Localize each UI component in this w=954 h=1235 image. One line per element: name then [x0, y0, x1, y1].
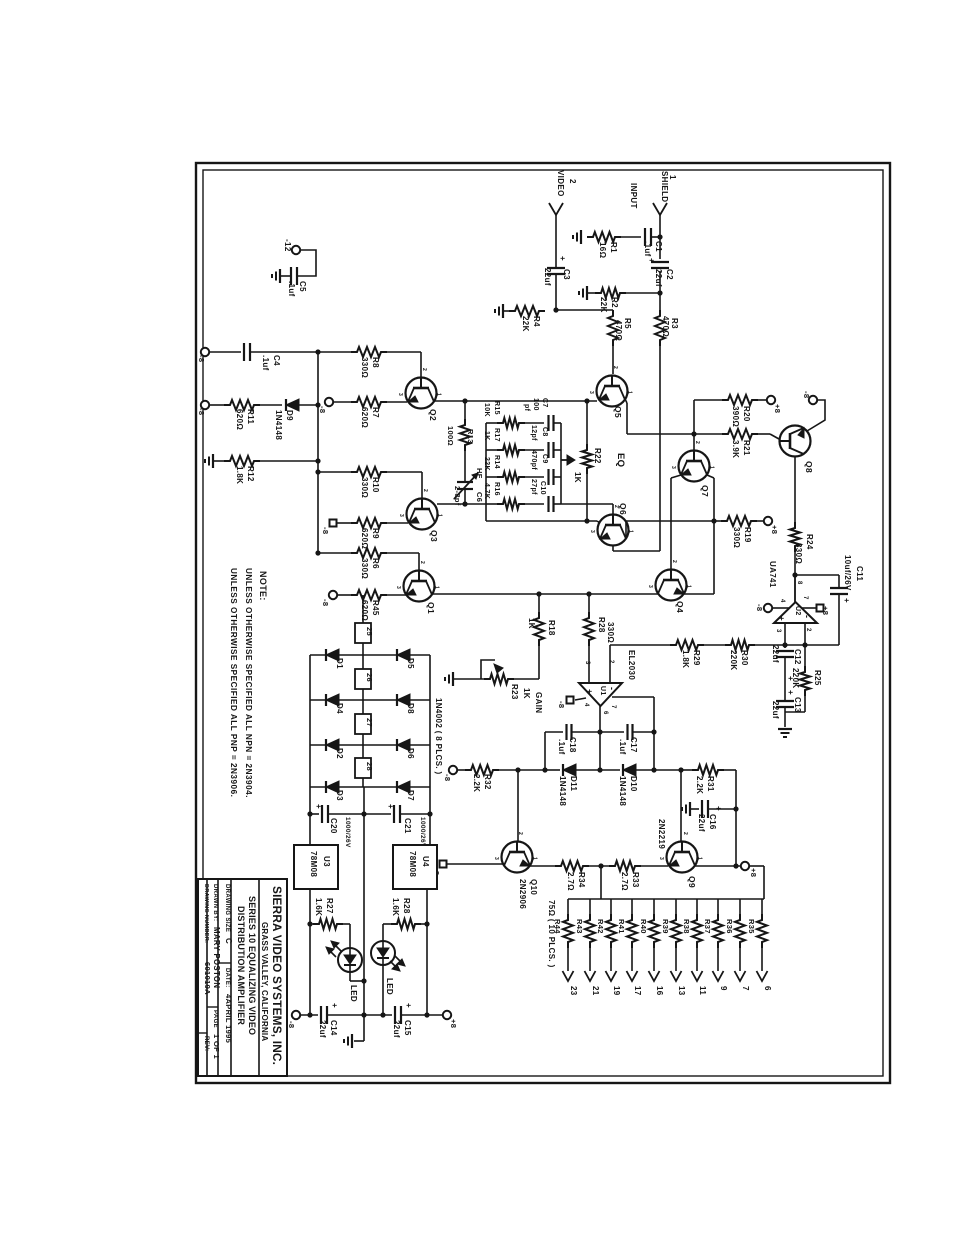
svg-text:6: 6 — [602, 711, 608, 715]
svg-text:1K: 1K — [522, 688, 531, 699]
svg-text:78M08: 78M08 — [408, 851, 417, 877]
svg-text:4.7K: 4.7K — [483, 483, 490, 499]
ground at R1 — [580, 230, 582, 244]
svg-text:SHIELD: SHIELD — [660, 171, 669, 202]
LED1 — [349, 924, 351, 948]
terminal -8 row R11 — [201, 401, 209, 409]
svg-text:-8: -8 — [197, 355, 206, 362]
svg-text:2: 2 — [694, 441, 700, 444]
wire output bus — [568, 898, 764, 900]
svg-text:R36: R36 — [725, 919, 734, 934]
svg-text:2: 2 — [422, 489, 428, 492]
op-amp U1 EL2030 — [579, 683, 622, 706]
svg-text:R23: R23 — [510, 684, 519, 700]
terminal +8 at R19 — [757, 520, 764, 522]
wire Q6 emitter bottom — [612, 545, 614, 551]
terminal +8 bottom — [443, 1011, 451, 1019]
svg-text:21: 21 — [591, 986, 600, 996]
ground at R2 — [587, 292, 595, 294]
terminal -8 row R45 — [329, 591, 337, 599]
svg-text:R35: R35 — [747, 919, 756, 934]
capacitor C17 — [600, 731, 624, 733]
output arrow pin 16 — [649, 971, 660, 981]
svg-text:+8: +8 — [449, 1019, 458, 1028]
transistor Q9 2N2219 — [680, 770, 682, 841]
svg-text:620Ω: 620Ω — [360, 528, 369, 549]
resistor R42 75 ohm output — [610, 899, 612, 916]
svg-text:-12: -12 — [283, 239, 292, 252]
svg-text:D7: D7 — [406, 790, 415, 801]
svg-text:C: C — [224, 938, 233, 944]
op-amp U2 UA741 — [774, 602, 817, 623]
capacitor C11 10uf/26V — [795, 574, 839, 576]
wire Q10 emitter row — [530, 865, 557, 867]
svg-text:470Ω: 470Ω — [661, 316, 670, 337]
transistor Q4 — [656, 570, 687, 601]
bridge row C — [310, 744, 430, 746]
svg-text:2: 2 — [682, 832, 688, 835]
wire R19 row — [714, 520, 724, 522]
svg-text:4: 4 — [583, 703, 589, 707]
connector J1 pin2 VIDEO input — [549, 203, 563, 215]
svg-text:Q7: Q7 — [700, 485, 710, 497]
diode D10 1N4148 — [600, 769, 620, 771]
wire Q1 emitter row — [432, 593, 658, 595]
svg-text:2: 2 — [805, 628, 811, 632]
terminal -8 at U2 pin4 — [773, 607, 789, 609]
svg-text:DATE:: DATE: — [224, 968, 230, 988]
capacitor C20 1000/26V — [310, 813, 319, 815]
svg-text:7: 7 — [610, 705, 616, 709]
ground at C5 — [280, 275, 291, 277]
svg-text:REV:: REV: — [203, 1036, 209, 1051]
wire R33 to Q9 — [639, 865, 668, 867]
svg-text:19: 19 — [612, 986, 621, 996]
svg-text:12pf: 12pf — [530, 425, 537, 441]
svg-text:R22: R22 — [593, 448, 602, 464]
svg-text:R42: R42 — [596, 919, 605, 934]
output arrow pin 13 — [671, 971, 682, 981]
svg-text:75Ω ( 10 PLCS. ): 75Ω ( 10 PLCS. ) — [547, 900, 556, 968]
svg-text:C12: C12 — [793, 649, 802, 665]
output arrow pin 6 — [757, 971, 768, 981]
svg-text:D3: D3 — [335, 790, 344, 801]
svg-text:3: 3 — [658, 857, 664, 860]
output arrow pin 23 — [563, 971, 574, 981]
svg-text:R19: R19 — [743, 527, 752, 543]
svg-text:pf: pf — [523, 404, 530, 412]
svg-text:8: 8 — [796, 581, 802, 585]
svg-text:Q5: Q5 — [613, 406, 623, 418]
wire R21 row — [627, 433, 722, 435]
wire R24 column from Q8 — [794, 456, 796, 524]
svg-text:-: - — [607, 687, 617, 690]
resistor R24 — [790, 522, 800, 552]
resistor R10 — [318, 471, 351, 473]
svg-text:C4: C4 — [272, 355, 281, 366]
svg-text:22uf: 22uf — [318, 1020, 327, 1038]
bridge row B — [310, 699, 430, 701]
potentiometer R22 1K EQ wiper arrow — [561, 459, 569, 461]
svg-text:-8: -8 — [443, 774, 452, 781]
svg-text:C10: C10 — [539, 481, 546, 495]
wire Q6 collector top — [612, 504, 614, 515]
resistor R1 — [587, 232, 621, 242]
wire R9 to Q3 base — [387, 522, 408, 524]
svg-text:220K: 220K — [729, 650, 738, 671]
svg-text:NOTE:: NOTE: — [258, 571, 268, 601]
wire R8 to Q2 collector — [387, 351, 421, 353]
EQ branch R14 C9 470pf — [486, 476, 500, 478]
resistor R38 75 ohm output — [696, 899, 698, 916]
svg-text:MARY POSTON: MARY POSTON — [212, 927, 221, 988]
svg-text:22K: 22K — [599, 297, 608, 313]
svg-text:3: 3 — [395, 586, 401, 589]
resistor R29 — [670, 640, 704, 650]
svg-text:-8: -8 — [197, 408, 206, 415]
wire R7 to Q2 base — [387, 401, 407, 403]
wire U1 output pin6 — [599, 706, 601, 770]
svg-text:R12: R12 — [246, 466, 255, 482]
svg-text:-8: -8 — [321, 527, 330, 534]
diode D1 — [326, 649, 339, 661]
svg-text:Q4: Q4 — [675, 601, 685, 613]
output arrow pin 21 — [585, 971, 596, 981]
svg-text:7: 7 — [741, 986, 750, 991]
svg-text:27: 27 — [365, 718, 374, 727]
svg-text:U4: U4 — [421, 856, 430, 867]
svg-text:620Ω: 620Ω — [235, 409, 244, 430]
wire U2 pin2 to R25 — [804, 623, 806, 666]
resistor R18 — [538, 594, 540, 612]
svg-text:C21: C21 — [403, 818, 412, 834]
wire Q6 base lead — [597, 521, 600, 523]
svg-text:DRAWING NUMBER:: DRAWING NUMBER: — [203, 884, 209, 943]
wire R29 to R30 — [704, 644, 727, 646]
svg-text:C13: C13 — [793, 697, 802, 713]
svg-text:C3: C3 — [562, 269, 571, 280]
svg-text:+: + — [777, 616, 786, 621]
svg-text:+: + — [714, 806, 723, 811]
capacitor C16 — [690, 808, 699, 810]
regulator U4 78M08 — [393, 845, 437, 889]
svg-text:220K: 220K — [791, 668, 800, 689]
svg-text:11: 11 — [698, 986, 707, 995]
capacitor C18 — [545, 731, 563, 733]
resistor R3 — [655, 310, 665, 346]
terminal -8 row R9 — [330, 520, 337, 527]
capacitor C2 — [651, 261, 669, 263]
svg-text:27pf: 27pf — [530, 479, 537, 495]
transistor Q3 — [407, 499, 438, 530]
resistor R8 — [351, 347, 387, 357]
svg-text:1N4148: 1N4148 — [558, 776, 567, 806]
svg-text:2: 2 — [612, 366, 618, 369]
svg-text:10K: 10K — [483, 403, 490, 417]
svg-text:Q2: Q2 — [428, 409, 438, 421]
svg-text:16: 16 — [655, 986, 664, 996]
svg-text:R27: R27 — [325, 898, 334, 914]
terminal +8 at U2 pin7 — [801, 607, 816, 609]
svg-text:R40: R40 — [639, 919, 648, 934]
diode D2 — [326, 739, 339, 751]
transistor Q10 2N2906 — [517, 770, 519, 841]
svg-text:R2: R2 — [610, 297, 619, 308]
svg-text:R43: R43 — [575, 919, 584, 934]
wire LED2 to bottom row — [382, 965, 384, 1015]
svg-text:D4: D4 — [335, 703, 344, 714]
resistor R30 — [725, 640, 755, 650]
svg-text:R33: R33 — [631, 872, 640, 888]
wire LED1 to center rail — [349, 972, 351, 981]
svg-text:U2: U2 — [794, 606, 801, 616]
svg-text:R39: R39 — [661, 919, 670, 934]
ground at bottom row — [363, 1015, 365, 1041]
resistor R28 1.6K — [419, 923, 427, 925]
wire R32 to diode row — [497, 769, 545, 771]
svg-text:100: 100 — [532, 398, 539, 411]
wire output bus feed — [600, 866, 602, 899]
resistor R31 2.2K — [681, 769, 694, 771]
svg-text:9: 9 — [719, 986, 728, 991]
svg-text:2-8pf: 2-8pf — [453, 486, 462, 506]
wire Q7 emitter column — [707, 475, 714, 478]
svg-text:D6: D6 — [406, 748, 415, 759]
svg-text:+: + — [647, 258, 656, 263]
wire R31 right column — [735, 770, 737, 866]
svg-text:D10: D10 — [629, 776, 638, 792]
svg-text:R17: R17 — [493, 428, 500, 442]
svg-text:1.8K: 1.8K — [681, 650, 690, 668]
wire R21 to Q8 base — [758, 433, 770, 435]
svg-text:R41: R41 — [617, 919, 626, 934]
resistor R28 — [588, 594, 590, 612]
svg-text:GAIN: GAIN — [534, 692, 543, 713]
transistor Q1 — [404, 571, 435, 602]
svg-text:R1: R1 — [609, 242, 618, 253]
svg-text:Q1: Q1 — [426, 602, 436, 614]
svg-text:2: 2 — [568, 179, 577, 184]
wire Q7 base column to Q4 — [671, 475, 681, 478]
svg-text:+: + — [558, 256, 567, 261]
svg-text:LED: LED — [385, 978, 394, 995]
svg-text:R21: R21 — [742, 440, 751, 456]
svg-text:28: 28 — [365, 762, 374, 771]
svg-text:.1uf: .1uf — [643, 241, 652, 257]
LED2 — [382, 924, 384, 941]
diode D3 — [326, 781, 339, 793]
svg-text:Q3: Q3 — [429, 530, 439, 542]
svg-text:1.6K: 1.6K — [391, 898, 400, 916]
svg-text:1N4148: 1N4148 — [618, 776, 627, 806]
svg-text:470Ω: 470Ω — [614, 320, 623, 341]
svg-text:2.2K: 2.2K — [695, 776, 704, 794]
svg-text:DRAWING SIZE: DRAWING SIZE — [224, 884, 230, 932]
svg-text:EL2030: EL2030 — [627, 650, 636, 680]
terminal -8 bottom left — [292, 1011, 300, 1019]
svg-text:330Ω: 330Ω — [360, 477, 369, 498]
wire bridge rails — [309, 655, 311, 845]
wire row C4 — [209, 351, 241, 353]
EQ branch R15 C7 100pf — [486, 422, 500, 424]
ground at C13 — [784, 712, 786, 727]
svg-text:22uf: 22uf — [697, 814, 706, 832]
svg-text:U3: U3 — [322, 856, 331, 867]
svg-text:1K: 1K — [483, 431, 490, 441]
resistor R39 75 ohm output — [675, 899, 677, 916]
svg-text:R9: R9 — [371, 528, 380, 539]
svg-text:1: 1 — [434, 586, 440, 589]
wire Q3 emitter row — [437, 503, 486, 505]
svg-text:16Ω: 16Ω — [598, 242, 607, 259]
terminal -8 row C4 — [201, 348, 209, 356]
terminal -8 at R32 — [449, 766, 457, 774]
svg-text:330Ω: 330Ω — [732, 527, 741, 548]
svg-text:Q9: Q9 — [687, 876, 697, 888]
resistor R20 — [722, 395, 758, 405]
ground at R4 — [503, 310, 509, 312]
svg-text:+8: +8 — [749, 868, 758, 877]
ground at R12 — [212, 454, 214, 468]
svg-text:HF: HF — [475, 468, 484, 479]
resistor R33 2.7ohm — [609, 861, 641, 871]
resistor R41 75 ohm output — [631, 899, 633, 916]
terminal -8 at Q10 — [447, 863, 504, 865]
transistor Q7 — [679, 451, 710, 482]
svg-text:R38: R38 — [682, 919, 691, 934]
svg-text:+: + — [404, 1003, 413, 1008]
svg-text:1N4002 ( 8 PLCS. ): 1N4002 ( 8 PLCS. ) — [434, 698, 443, 775]
terminal -12 — [292, 246, 300, 254]
svg-text:1000/26V: 1000/26V — [344, 817, 351, 848]
svg-text:R34: R34 — [577, 872, 586, 888]
svg-text:22K: 22K — [521, 316, 530, 332]
svg-text:+8: +8 — [821, 606, 830, 615]
svg-text:-8: -8 — [755, 604, 764, 611]
svg-text:R25: R25 — [813, 670, 822, 686]
rail vertical left — [317, 352, 319, 553]
wire Q5 collector down — [625, 399, 627, 403]
svg-text:DRAWN BY:: DRAWN BY: — [212, 884, 218, 921]
svg-text:+: + — [585, 689, 594, 694]
svg-text:D8: D8 — [406, 703, 415, 714]
svg-text:R31: R31 — [706, 776, 715, 792]
terminal -8 at U1 pin4 — [575, 698, 586, 700]
wire center rail — [363, 787, 365, 1015]
svg-text:R18: R18 — [547, 620, 556, 636]
wire R20 to R21 column — [693, 400, 695, 451]
diode D4 — [326, 694, 339, 706]
svg-text:C15: C15 — [403, 1020, 412, 1036]
svg-text:C20: C20 — [329, 818, 338, 834]
transistor Q8 — [780, 426, 811, 457]
resistor R2 — [595, 288, 626, 298]
ground at C16 — [689, 802, 691, 816]
resistor R21 — [722, 429, 758, 439]
svg-text:1.8K: 1.8K — [235, 466, 244, 484]
svg-text:GRASS VALLEY, CALIFORNIA: GRASS VALLEY, CALIFORNIA — [260, 922, 269, 1041]
svg-text:R28: R28 — [597, 617, 606, 633]
output arrow pin 9 — [713, 971, 724, 981]
svg-text:R37: R37 — [703, 919, 712, 934]
wire Q2 emitter row — [434, 400, 597, 402]
svg-text:601019A: 601019A — [203, 962, 212, 995]
wire feedback row R29 R30 — [610, 644, 672, 646]
terminal -8 near Q8 — [809, 396, 817, 404]
svg-text:1: 1 — [627, 391, 633, 394]
svg-text:3: 3 — [670, 466, 676, 469]
wire U1 pin2 feedback — [609, 645, 611, 683]
wire R2 to shield column — [620, 292, 660, 294]
capacitor C5 — [290, 267, 292, 285]
wire R20 row — [694, 399, 722, 401]
wire C13 R25 bottom row — [785, 711, 805, 713]
svg-text:1K: 1K — [527, 618, 536, 629]
resistor R44 75 ohm output — [567, 899, 569, 916]
svg-text:.1uf: .1uf — [261, 355, 270, 371]
terminal +8 at Q9 — [741, 862, 749, 870]
svg-text:330Ω: 330Ω — [606, 622, 615, 643]
svg-text:2: 2 — [608, 660, 614, 664]
svg-text:R28: R28 — [402, 898, 411, 914]
capacitor C4 — [243, 343, 245, 361]
diode D9 1N4148 — [260, 404, 282, 406]
svg-text:R14: R14 — [493, 455, 500, 469]
wire C17 right column pin7 — [653, 697, 655, 770]
wire R30 to C12 top and C11 — [753, 644, 839, 646]
svg-text:390Ω: 390Ω — [731, 406, 740, 427]
svg-text:2N2906: 2N2906 — [518, 879, 527, 909]
capacitor C1 — [615, 236, 641, 238]
svg-text:+8: +8 — [770, 525, 779, 534]
terminal -8 row R7 — [325, 398, 333, 406]
svg-text:3: 3 — [398, 514, 404, 517]
svg-text:R29: R29 — [692, 650, 701, 666]
svg-text:INPUT: INPUT — [629, 183, 638, 209]
svg-text:DISTRIBUTION AMPLIFIER: DISTRIBUTION AMPLIFIER — [236, 906, 246, 1025]
svg-text:6: 6 — [763, 986, 772, 991]
svg-text:LED: LED — [349, 985, 358, 1002]
svg-text:78M08: 78M08 — [309, 851, 318, 877]
svg-text:C18: C18 — [568, 737, 577, 753]
svg-text:1: 1 — [686, 585, 692, 588]
svg-text:1: 1 — [437, 514, 443, 517]
svg-text:R8: R8 — [371, 357, 380, 368]
svg-text:R24: R24 — [805, 534, 814, 550]
svg-text:-8: -8 — [318, 406, 327, 413]
resistor R35 75 ohm output — [761, 899, 763, 916]
resistor R19 — [721, 516, 757, 526]
wire -8 to Q8 emitter — [807, 400, 825, 431]
resistor R6 — [318, 552, 351, 554]
svg-text:VIDEO: VIDEO — [556, 170, 565, 197]
svg-text:D9: D9 — [285, 410, 294, 421]
connector pin box 27 — [362, 700, 364, 714]
svg-text:22uf: 22uf — [654, 269, 663, 287]
capacitor C3 — [547, 267, 565, 269]
svg-text:3: 3 — [493, 857, 499, 860]
svg-text:3: 3 — [775, 629, 781, 633]
resistor R45 — [337, 594, 351, 596]
svg-text:1000/26V: 1000/26V — [419, 817, 426, 848]
svg-text:1N4148: 1N4148 — [274, 410, 283, 440]
connector J1 pin1 SHIELD input — [653, 203, 667, 215]
svg-text:-: - — [802, 615, 812, 618]
wire bottom row — [300, 1014, 318, 1016]
svg-text:+: + — [842, 598, 851, 603]
diode D7 — [397, 781, 410, 793]
svg-text:D11: D11 — [569, 776, 578, 791]
